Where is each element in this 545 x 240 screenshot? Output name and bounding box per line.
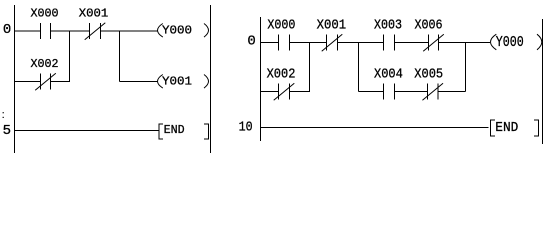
END instruction left bracket (ladder 2) [491, 120, 496, 136]
svg-text:X005: X005 [414, 67, 443, 82]
contact X001 (normally closed) [85, 23, 106, 40]
coil Y000 right parenthesis (ladder 2) [537, 34, 542, 50]
wire rung0 seg: rail to X000 (ladder 2) [261, 42, 279, 44]
svg-text:X000: X000 [267, 18, 295, 33]
wire Y001 branch: junction to coil Y001 [120, 81, 158, 83]
svg-text:X006: X006 [415, 18, 443, 33]
svg-text:X002: X002 [267, 67, 296, 82]
svg-text:X002: X002 [31, 57, 59, 71]
contact X000 (normally open) [41, 23, 51, 39]
right power rail (ladder 1) [210, 5, 212, 153]
contact X006 (normally closed) [423, 34, 444, 51]
svg-text:10: 10 [239, 120, 253, 136]
wire rung0 seg: rail to X000 [15, 30, 41, 32]
svg-text:X000: X000 [31, 7, 59, 21]
wire rung0 seg: X001 to coil Y000 [101, 30, 158, 32]
wire X005 branch: X005 to junction [438, 91, 466, 93]
svg-text:0: 0 [3, 22, 11, 38]
branch junction vertical: rung0 to X002 branch (ladder 2) [309, 43, 311, 92]
coil Y001 right parenthesis [204, 75, 209, 89]
wire rung0 seg: X000 to X001 [51, 30, 90, 32]
svg-text:X001: X001 [317, 18, 347, 33]
wire rung0 seg: X000 to X001 (ladder 2) [290, 42, 327, 44]
svg-text:END: END [164, 123, 185, 137]
wire END rung (ladder 2) [261, 127, 489, 129]
svg-text:Y001: Y001 [162, 75, 192, 89]
wire X004 branch: X004 to X005 [395, 91, 429, 93]
contact X002 (normally closed, ladder 2) [274, 83, 295, 100]
wire rung0 seg: X006 to coil Y000 (ladder 2) [439, 42, 491, 44]
branch junction vertical: X005 branch to rung0 (right side) [465, 43, 467, 92]
right power rail (ladder 2) [542, 19, 544, 144]
wire X002 branch: rail to X002 [15, 81, 41, 83]
contact X001 (normally closed, ladder 2) [322, 34, 343, 51]
contact X003 (normally open) [384, 35, 395, 51]
wire rung0 seg: X003 to X006 [395, 42, 429, 44]
contact X002 (normally closed) [35, 73, 56, 90]
branch junction vertical: rung0 to X002 branch [69, 31, 71, 82]
svg-text:Y000: Y000 [496, 35, 524, 51]
branch junction vertical: rung0 to coil Y001 branch [119, 31, 121, 82]
coil Y000 right parenthesis [204, 24, 209, 38]
coil Y000 left parenthesis [158, 24, 163, 38]
svg-text:X001: X001 [79, 7, 109, 21]
left power rail (ladder 2) [260, 17, 262, 141]
coil Y000 left parenthesis (ladder 2) [491, 34, 497, 50]
wire X002 branch: rail to X002 (ladder 2) [261, 91, 279, 93]
contact X005 (normally closed) [422, 83, 443, 100]
svg-text:X004: X004 [374, 67, 403, 82]
svg-text:END: END [495, 120, 518, 136]
svg-text:5: 5 [3, 123, 11, 139]
svg-text:Y000: Y000 [162, 24, 192, 38]
END instruction right bracket (ladder 2) [534, 120, 539, 136]
coil Y001 left parenthesis [158, 75, 163, 89]
colon marks left margin [3, 112, 4, 118]
svg-text:X003: X003 [374, 18, 402, 33]
wire X004 branch: junction to X004 [359, 91, 384, 93]
END instruction right bracket (ladder 1) [204, 124, 208, 139]
wire END rung (ladder 1) [15, 130, 159, 132]
wire rung0 seg: X001 to X003 [338, 42, 384, 44]
contact X004 (normally open) [384, 84, 395, 100]
wire X002 branch: X002 to junction [51, 81, 71, 83]
END instruction left bracket (ladder 1) [159, 124, 163, 139]
contact X000 (normally open, ladder 2) [279, 35, 290, 51]
left power rail (ladder 1) [14, 5, 16, 153]
branch junction vertical: rung0 to X004 branch (left side) [358, 43, 360, 92]
wire X002 branch: X002 to junction (ladder 2) [290, 91, 311, 93]
svg-text:0: 0 [247, 33, 255, 49]
